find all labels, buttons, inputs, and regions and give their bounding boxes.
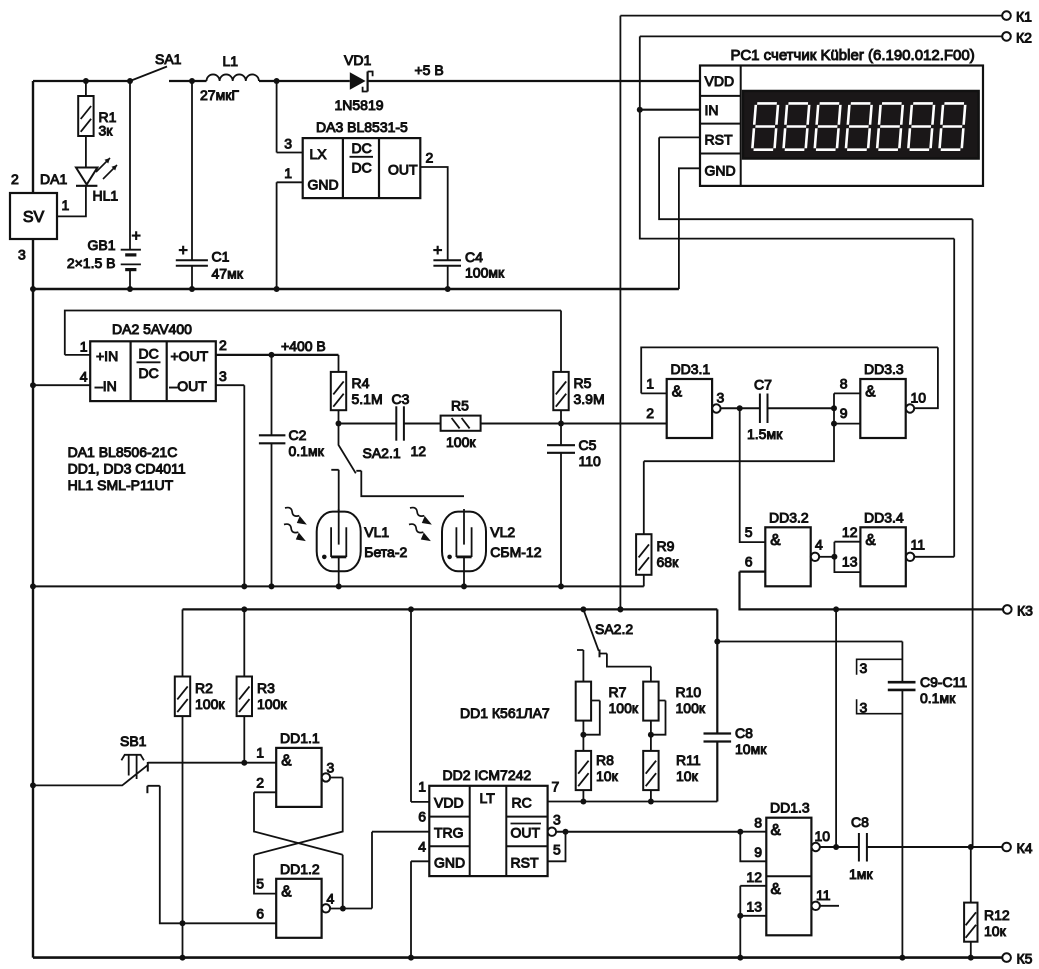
svg-text:+400 В: +400 В (281, 338, 326, 354)
svg-text:IN: IN (705, 102, 719, 118)
svg-text:+5 В: +5 В (415, 62, 444, 78)
svg-text:RST: RST (705, 132, 733, 148)
svg-text:VDD: VDD (434, 795, 464, 811)
svg-text:GND: GND (308, 177, 339, 193)
svg-text:2: 2 (426, 150, 434, 166)
svg-text:DA1 BL8506-21C: DA1 BL8506-21C (68, 444, 178, 460)
svg-text:RST: RST (511, 855, 539, 871)
svg-text:3: 3 (717, 390, 725, 406)
svg-text:C5: C5 (579, 437, 597, 453)
svg-text:2: 2 (646, 405, 654, 421)
svg-text:13: 13 (842, 554, 858, 570)
svg-text:C8: C8 (851, 814, 869, 830)
svg-text:DD1.3: DD1.3 (770, 800, 810, 816)
svg-text:0.1мк: 0.1мк (289, 443, 325, 459)
svg-text:11: 11 (911, 537, 926, 553)
svg-text:4: 4 (418, 839, 426, 855)
svg-text:–OUT: –OUT (170, 378, 208, 394)
svg-text:C9-C11: C9-C11 (920, 674, 967, 690)
svg-text:GND: GND (705, 163, 736, 179)
svg-text:VL1: VL1 (364, 524, 389, 540)
svg-text:SA2.2: SA2.2 (595, 621, 633, 637)
svg-text:R11: R11 (676, 752, 701, 768)
svg-text:27мкГ: 27мкГ (200, 87, 239, 103)
svg-text:1: 1 (646, 376, 654, 392)
svg-text:10к: 10к (984, 923, 1007, 939)
svg-text:+: + (132, 228, 141, 245)
svg-text:10к: 10к (596, 768, 619, 784)
svg-text:3: 3 (860, 700, 868, 716)
svg-text:C3: C3 (392, 391, 410, 407)
svg-text:&: & (281, 883, 292, 900)
svg-text:2: 2 (219, 337, 227, 353)
svg-text:3: 3 (284, 136, 292, 152)
svg-text:RC: RC (512, 795, 532, 811)
svg-text:DA3 BL8531-5: DA3 BL8531-5 (316, 119, 408, 135)
svg-text:DD1.1: DD1.1 (280, 730, 320, 746)
svg-text:DC: DC (352, 140, 372, 156)
svg-text:OUT: OUT (388, 162, 418, 178)
svg-text:VL2: VL2 (490, 524, 515, 540)
svg-text:R7: R7 (609, 684, 627, 700)
svg-text:Бета-2: Бета-2 (364, 544, 407, 560)
svg-text:DD3.3: DD3.3 (864, 361, 904, 377)
svg-text:SA2.1: SA2.1 (363, 445, 401, 461)
svg-text:10: 10 (911, 390, 927, 406)
svg-text:2: 2 (256, 775, 264, 791)
svg-text:1: 1 (62, 197, 70, 213)
svg-text:К5: К5 (1017, 950, 1033, 966)
svg-text:8: 8 (840, 376, 848, 392)
svg-text:3: 3 (327, 760, 335, 776)
svg-text:68к: 68к (657, 554, 680, 570)
svg-text:+IN: +IN (96, 348, 118, 364)
svg-text:5.1M: 5.1M (352, 391, 383, 407)
svg-text:C7: C7 (754, 377, 772, 393)
svg-text:R12: R12 (984, 907, 1010, 923)
svg-text:SV: SV (23, 209, 45, 226)
svg-text:100к: 100к (257, 696, 287, 712)
svg-text:12: 12 (842, 524, 858, 540)
svg-text:+OUT: +OUT (171, 348, 209, 364)
svg-text:DA1: DA1 (40, 171, 67, 187)
svg-text:9: 9 (840, 405, 848, 421)
svg-text:6: 6 (256, 906, 264, 922)
svg-text:R8: R8 (596, 752, 614, 768)
svg-text:DC: DC (139, 365, 159, 381)
svg-text:L1: L1 (223, 53, 239, 69)
svg-text:DD3.4: DD3.4 (864, 510, 904, 526)
svg-text:1.5мк: 1.5мк (747, 426, 783, 442)
svg-text:8: 8 (754, 815, 762, 831)
svg-text:3к: 3к (99, 123, 114, 139)
svg-text:DD1.2: DD1.2 (280, 861, 320, 877)
svg-text:R5: R5 (451, 398, 469, 414)
svg-text:R10: R10 (676, 684, 702, 700)
svg-text:1N5819: 1N5819 (335, 97, 384, 113)
svg-text:3: 3 (860, 660, 868, 676)
svg-text:7: 7 (552, 779, 560, 795)
svg-text:100к: 100к (446, 434, 476, 450)
svg-text:DA2 5AV400: DA2 5AV400 (112, 321, 192, 337)
svg-text:100к: 100к (676, 700, 706, 716)
svg-text:GB1: GB1 (87, 237, 115, 253)
svg-text:DD2 ICM7242: DD2 ICM7242 (443, 767, 532, 783)
svg-text:100к: 100к (609, 700, 639, 716)
svg-text:3: 3 (18, 247, 26, 263)
svg-text:47мк: 47мк (212, 266, 244, 282)
svg-text:VDD: VDD (705, 73, 735, 89)
svg-text:4: 4 (815, 537, 823, 553)
svg-text:+: + (179, 243, 188, 260)
svg-text:&: & (865, 384, 876, 401)
svg-text:13: 13 (746, 899, 762, 915)
svg-text:DD1, DD3 CD4011: DD1, DD3 CD4011 (68, 461, 186, 477)
svg-text:OUT: OUT (511, 825, 541, 841)
svg-text:1: 1 (284, 165, 292, 181)
svg-text:5: 5 (256, 876, 264, 892)
svg-text:R4: R4 (352, 375, 370, 391)
svg-text:110: 110 (579, 453, 602, 469)
svg-text:СБМ-12: СБМ-12 (490, 544, 541, 560)
svg-text:6: 6 (418, 809, 426, 825)
svg-text:10мк: 10мк (735, 741, 767, 757)
svg-text:LX: LX (310, 146, 328, 162)
svg-text:+: + (433, 243, 442, 260)
svg-text:12: 12 (746, 869, 762, 885)
svg-text:DC: DC (139, 346, 159, 362)
svg-text:0.1мк: 0.1мк (920, 690, 956, 706)
svg-text:&: & (281, 752, 292, 769)
svg-text:DD3.1: DD3.1 (671, 361, 711, 377)
svg-text:DC: DC (352, 160, 372, 176)
svg-text:LT: LT (480, 790, 496, 806)
svg-text:10: 10 (815, 828, 831, 844)
svg-text:R5: R5 (574, 375, 592, 391)
svg-text:1мк: 1мк (849, 866, 873, 882)
svg-text:R9: R9 (657, 538, 675, 554)
svg-text:C1: C1 (212, 249, 230, 265)
svg-text:К1: К1 (1016, 9, 1032, 25)
svg-text:5: 5 (553, 842, 561, 858)
svg-text:К2: К2 (1016, 29, 1032, 45)
svg-text:HL1: HL1 (93, 188, 119, 204)
svg-text:12: 12 (411, 443, 427, 459)
svg-text:3.9M: 3.9M (574, 391, 605, 407)
svg-text:SA1: SA1 (155, 51, 182, 67)
svg-text:C8: C8 (735, 725, 753, 741)
svg-text:R3: R3 (257, 680, 275, 696)
svg-text:1: 1 (256, 745, 264, 761)
svg-text:–IN: –IN (95, 378, 117, 394)
svg-text:100к: 100к (195, 696, 225, 712)
svg-text:2×1.5 В: 2×1.5 В (67, 255, 116, 271)
svg-text:DD3.2: DD3.2 (769, 510, 809, 526)
svg-text:VD1: VD1 (344, 52, 371, 68)
svg-text:1: 1 (80, 339, 88, 355)
svg-text:&: & (770, 532, 781, 549)
svg-text:9: 9 (754, 844, 762, 860)
svg-text:3: 3 (553, 812, 561, 828)
svg-text:C4: C4 (465, 249, 483, 265)
svg-text:DD1 К561ЛА7: DD1 К561ЛА7 (460, 705, 550, 721)
svg-text:10к: 10к (676, 768, 699, 784)
svg-text:5: 5 (745, 524, 753, 540)
svg-text:К3: К3 (1017, 602, 1033, 618)
svg-text:C2: C2 (289, 427, 307, 443)
svg-text:1: 1 (418, 779, 426, 795)
svg-text:SB1: SB1 (120, 733, 147, 749)
svg-text:РС1 счетчик Kübler (6.190.012.: РС1 счетчик Kübler (6.190.012.F00) (731, 47, 975, 64)
svg-text:4: 4 (327, 891, 335, 907)
svg-text:100мк: 100мк (465, 265, 505, 281)
svg-text:HL1 SML-P11UT: HL1 SML-P11UT (68, 477, 174, 493)
svg-text:3: 3 (219, 368, 227, 384)
svg-text:&: & (865, 532, 876, 549)
svg-text:&: & (672, 384, 683, 401)
svg-text:11: 11 (816, 887, 831, 903)
svg-text:&: & (771, 822, 782, 839)
svg-text:К4: К4 (1017, 840, 1033, 856)
svg-text:4: 4 (80, 369, 88, 385)
svg-text:R2: R2 (195, 680, 213, 696)
svg-text:GND: GND (434, 855, 465, 871)
svg-text:TRG: TRG (434, 825, 464, 841)
svg-text:2: 2 (11, 171, 19, 187)
svg-text:6: 6 (745, 554, 753, 570)
svg-text:&: & (771, 881, 782, 898)
